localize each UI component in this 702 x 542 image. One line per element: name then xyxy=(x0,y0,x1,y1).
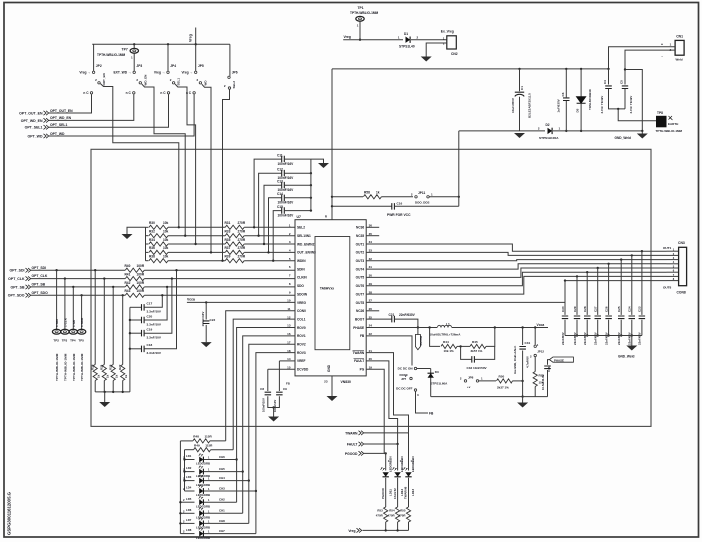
svg-text:C24: C24 xyxy=(628,306,632,312)
wire divider left xyxy=(430,328,440,347)
svg-text:SEL2: SEL2 xyxy=(232,81,236,89)
svg-text:ROV1: ROV1 xyxy=(297,334,306,338)
jumper JP2 pin 2 xyxy=(98,82,100,84)
junction C14 tap xyxy=(267,251,269,253)
svg-text:OPT_WD_EN: OPT_WD_EN xyxy=(21,119,43,123)
svg-text:C14: C14 xyxy=(277,192,283,196)
junction OUT1 cap tap xyxy=(641,250,643,252)
junction C6 gnd xyxy=(565,130,567,132)
wire xyxy=(381,196,413,198)
connector arrow OPT_SDO xyxy=(26,293,31,297)
svg-text:OPT_SEL1: OPT_SEL1 xyxy=(25,126,43,130)
wire LD8 cathode xyxy=(204,533,256,535)
wire C12 left lead xyxy=(259,173,282,236)
wire row middle xyxy=(168,260,225,262)
svg-text:D1: D1 xyxy=(404,32,408,36)
svg-text:CH7: CH7 xyxy=(219,529,225,533)
junction Vreg riser xyxy=(195,43,197,45)
LED LD1 LEDGORB xyxy=(199,457,203,463)
svg-text:JP6: JP6 xyxy=(232,70,238,74)
junction GND_Weld xyxy=(641,130,643,132)
junction OUT2 cap tap xyxy=(631,254,633,256)
svg-text:R50: R50 xyxy=(499,375,505,379)
connector CN1 xyxy=(675,40,684,55)
svg-text:FAULT: FAULT xyxy=(354,359,364,363)
wire R49 out xyxy=(211,449,234,451)
svg-text:C26: C26 xyxy=(604,306,608,312)
svg-text:CH1: CH1 xyxy=(219,509,225,513)
svg-text:4.7nF Y1/4kV: 4.7nF Y1/4kV xyxy=(629,96,633,114)
wire xyxy=(94,381,96,392)
capacitor C21 boot xyxy=(392,316,395,323)
junction C15 gnd rail xyxy=(310,209,312,211)
resistor R38 10k xyxy=(149,259,168,263)
wire JP5 pin1 stub xyxy=(195,44,197,71)
wire R48 out xyxy=(210,440,226,442)
jumper JP11 pin 2 xyxy=(415,196,417,198)
resistor R33 270R xyxy=(225,234,244,238)
svg-text:OPT_CLK: OPT_CLK xyxy=(32,274,48,278)
svg-text:D3: D3 xyxy=(435,370,439,374)
svg-text:SDOIN: SDOIN xyxy=(297,292,308,296)
wire C29 top lead xyxy=(576,276,578,315)
svg-text:CH4: CH4 xyxy=(219,476,225,480)
svg-text:R38: R38 xyxy=(149,255,155,259)
LD7 light arrows xyxy=(199,518,201,520)
capacitor C27 22nF xyxy=(595,316,602,319)
svg-text:PHASE: PHASE xyxy=(353,326,364,330)
svg-text:OPT_OUT_EN: OPT_OUT_EN xyxy=(50,109,73,113)
wire pulldown 3 xyxy=(122,295,124,364)
wire LD5 cathode xyxy=(204,501,237,503)
svg-text:GND_Weld: GND_Weld xyxy=(618,355,634,359)
wire row middle xyxy=(168,251,225,253)
wire TWARN xyxy=(366,353,408,433)
svg-text:R32: R32 xyxy=(149,230,155,234)
svg-text:C22: C22 xyxy=(210,318,216,322)
svg-text:JP4: JP4 xyxy=(170,64,176,68)
svg-text:LEDGORB: LEDGORB xyxy=(196,516,210,520)
svg-text:ROV2: ROV2 xyxy=(297,343,306,347)
resistor R54 470R xyxy=(396,507,400,522)
ground caps xyxy=(318,163,329,168)
svg-text:VREF: VREF xyxy=(297,359,306,363)
svg-text:LEDGORB: LEDGORB xyxy=(196,504,210,508)
wire FB to JP7 xyxy=(366,336,412,366)
wire JP3 signal down xyxy=(142,84,186,236)
svg-text:470R: 470R xyxy=(376,514,384,518)
junction OUT7 cap tap xyxy=(576,275,578,277)
wire Vreg rail xyxy=(92,43,230,45)
resistor R40 100R xyxy=(125,268,144,272)
capacitor C23 22nF xyxy=(639,316,646,319)
wire phase flag stem xyxy=(417,328,419,335)
svg-text:C13: C13 xyxy=(277,179,283,183)
TWARN overline xyxy=(353,349,365,351)
wire gnd stem xyxy=(273,408,275,417)
wire LD11 anode xyxy=(385,453,387,470)
svg-text:22nF/63V: 22nF/63V xyxy=(594,332,598,345)
wire OPT_SB xyxy=(31,286,125,288)
svg-text:R53: R53 xyxy=(377,509,383,513)
wire C23 top lead xyxy=(641,251,643,315)
net flag PHASE right xyxy=(550,357,574,362)
wire JP7 to D3 xyxy=(417,368,431,370)
svg-text:OPT_CLK: OPT_CLK xyxy=(8,277,25,281)
svg-text:10uH/SLTR6L+726mA: 10uH/SLTR6L+726mA xyxy=(430,333,462,337)
wire OUT8 xyxy=(366,281,666,303)
junction C17 row tap xyxy=(161,294,163,296)
junction C12 gnd rail xyxy=(310,172,312,174)
wire xyxy=(146,226,149,228)
wire VS supply to IC xyxy=(331,69,333,220)
resistor R31 270R xyxy=(225,225,244,229)
junction OPT_SB pulldown xyxy=(112,286,114,288)
svg-text:C29: C29 xyxy=(573,306,577,312)
LED LD3 LEDGORB xyxy=(199,478,203,484)
svg-text:OPT_WD_EN: OPT_WD_EN xyxy=(50,116,72,120)
svg-text:LD8: LD8 xyxy=(186,528,192,532)
junction row 4 xyxy=(210,251,212,253)
wire OPT_CLK xyxy=(31,278,125,280)
LED LD7 LEDGORB xyxy=(199,521,203,527)
svg-text:JP3: JP3 xyxy=(136,64,142,68)
wire OPT_CLK to IC xyxy=(144,278,295,280)
wire OUT3 xyxy=(366,260,666,261)
wire xyxy=(457,345,470,347)
jumper JP7 pin 1 xyxy=(414,367,416,369)
svg-text:WDIN: WDIN xyxy=(297,259,306,263)
LED LD6 LEDGORB xyxy=(199,510,203,516)
svg-text:CH5: CH5 xyxy=(219,467,225,471)
LD12 light arrows xyxy=(392,468,394,470)
svg-text:OPT_SDI: OPT_SDI xyxy=(32,266,47,270)
svg-text:EARTH: EARTH xyxy=(668,122,678,126)
wire OUT4 xyxy=(366,264,666,269)
LED LD13 xyxy=(405,472,411,477)
wire OUT5 xyxy=(366,268,666,277)
junction FAULT led xyxy=(396,443,398,445)
junction CN1 plus xyxy=(607,68,609,70)
junction C13 tap xyxy=(263,243,265,245)
svg-text:WD_EN: WD_EN xyxy=(143,75,147,86)
wire xyxy=(332,205,392,207)
svg-text:R44: R44 xyxy=(443,340,449,344)
wire LED rail A xyxy=(179,441,181,534)
wire ROV1 bus xyxy=(243,336,295,513)
wire C32 left xyxy=(461,346,472,359)
svg-text:Vcca: Vcca xyxy=(537,323,545,327)
svg-text:LEDGORB: LEDGORB xyxy=(196,536,210,540)
connector CN3 xyxy=(679,247,687,285)
wire JP6 signal down xyxy=(223,89,230,260)
wire ROV3 bus xyxy=(256,353,295,534)
svg-text:R40: R40 xyxy=(125,264,131,268)
wire C33 bottom lead xyxy=(547,370,549,397)
wire ROV0 bus xyxy=(237,328,295,503)
junction C14 gnd rail xyxy=(310,197,312,199)
connector arrow PGOOD xyxy=(359,451,364,455)
ground C22 xyxy=(201,342,212,347)
svg-text:TPTH-WBLIO-1MM: TPTH-WBLIO-1MM xyxy=(97,53,125,57)
svg-text:TWARN: TWARN xyxy=(353,351,365,355)
wire TP2 stem xyxy=(56,270,58,329)
svg-text:LD5: LD5 xyxy=(186,497,192,501)
junction OUT5 cap tap xyxy=(597,267,599,269)
junction OPT_CLK pulldown xyxy=(103,277,105,279)
svg-text:3.3nF/10V: 3.3nF/10V xyxy=(147,351,162,355)
junction xyxy=(122,391,124,393)
wire xyxy=(641,131,643,134)
capacitor C13 100nF xyxy=(282,182,285,189)
wire FAULT xyxy=(366,361,397,444)
junction LED row4 tap xyxy=(255,490,257,492)
wire LD7 cathode xyxy=(204,522,249,524)
svg-text:4.7nF Y1/4kV: 4.7nF Y1/4kV xyxy=(600,96,604,114)
wire C18 to row xyxy=(144,270,176,349)
svg-text:VREG: VREG xyxy=(297,301,307,305)
wire D2 rail left xyxy=(459,130,545,132)
svg-text:CN3: CN3 xyxy=(678,241,685,245)
svg-text:DOO_DOS: DOO_DOS xyxy=(415,201,430,205)
FAULT overline xyxy=(354,358,365,360)
ground CN2 xyxy=(421,57,432,62)
wire C22 top lead xyxy=(205,302,207,319)
svg-text:OUT5: OUT5 xyxy=(356,276,365,280)
svg-text:100R: 100R xyxy=(137,281,145,285)
svg-text:EXT_WD →: EXT_WD → xyxy=(113,71,131,75)
wire C6 top lead xyxy=(565,69,567,98)
svg-text:R39: R39 xyxy=(225,255,231,259)
junction phase boot xyxy=(417,326,419,328)
wire D5 top lead xyxy=(580,69,582,97)
wire C27 bottom lead xyxy=(597,320,599,336)
svg-text:2k37 1%: 2k37 1% xyxy=(497,386,509,390)
junction LED rail xyxy=(179,501,181,503)
wire C5 top lead xyxy=(624,70,626,85)
wire snubber gnd rail xyxy=(565,335,642,337)
svg-text:CH2: CH2 xyxy=(219,498,225,502)
wire TP3 stem xyxy=(64,279,66,330)
wire Vreg label riser xyxy=(195,28,197,45)
jumper JP4 pin 1 xyxy=(167,71,169,73)
wire C1 bottom lead xyxy=(519,97,521,131)
svg-text:B2LE2ABF2X11.5: B2LE2ABF2X11.5 xyxy=(528,93,532,118)
wire C25 top lead xyxy=(620,260,622,315)
svg-text:100R: 100R xyxy=(137,289,145,293)
svg-text:BOOT: BOOT xyxy=(355,317,364,321)
junction LED rail xyxy=(179,522,181,524)
wire VREG pin xyxy=(187,301,295,303)
junction D5 gnd xyxy=(580,130,582,132)
svg-text:LD13: LD13 xyxy=(411,489,415,496)
jumper JP4 pin 3 xyxy=(167,92,169,94)
junction C15 tap xyxy=(272,260,274,262)
wire CN3 pin 4 stub xyxy=(667,263,679,265)
junction C18 xyxy=(129,348,131,350)
svg-text:TP3: TP3 xyxy=(62,339,68,343)
svg-text:C15: C15 xyxy=(277,205,283,209)
capacitor C17 3.3nF xyxy=(142,304,145,311)
svg-text:470R: 470R xyxy=(399,514,407,518)
svg-text:TPTH-WBLIO-1MM: TPTH-WBLIO-1MM xyxy=(350,11,378,15)
svg-text:270R: 270R xyxy=(238,255,246,259)
resistor R41 100R xyxy=(125,277,144,281)
wire C28 bottom lead xyxy=(586,320,588,336)
resistor R27 pulldown xyxy=(121,365,125,381)
svg-text:OPT_SEL1: OPT_SEL1 xyxy=(50,123,67,127)
wire OPT_WD_EN to jumper xyxy=(49,94,134,120)
wire LD12 cathode xyxy=(397,478,399,507)
svg-text:STPS1L60A: STPS1L60A xyxy=(431,381,449,385)
connector arrow OPT_WD_EN xyxy=(44,118,49,122)
wire CN3 pin 3 stub xyxy=(667,259,679,261)
svg-text:R55: R55 xyxy=(400,509,406,513)
wire JP11 to VS riser xyxy=(430,196,459,198)
svg-text:JP8: JP8 xyxy=(468,375,474,379)
wire OUT1 xyxy=(366,244,666,251)
resistor R45 3k57 xyxy=(470,344,486,348)
svg-text:JP11: JP11 xyxy=(418,191,425,195)
wire C4 bottom bracket xyxy=(609,89,626,109)
wire C9 top lead xyxy=(278,361,280,391)
wire C23 bottom lead xyxy=(641,320,643,336)
svg-text:WD_EN/IN2: WD_EN/IN2 xyxy=(297,242,315,246)
wire VREF xyxy=(279,360,295,362)
svg-text:OPT_SDO: OPT_SDO xyxy=(32,291,49,295)
svg-text:22nF/63V: 22nF/63V xyxy=(583,332,587,345)
wire LD8 anode xyxy=(180,533,194,535)
wire C4 top lead xyxy=(608,69,610,85)
resistor R32 10k xyxy=(149,234,168,238)
wire xyxy=(397,522,399,530)
svg-text:CN1: CN1 xyxy=(676,34,683,38)
LD2 light arrows xyxy=(199,466,201,468)
svg-text:Vreg: Vreg xyxy=(348,529,355,533)
wire C1 top lead xyxy=(519,69,521,91)
wire LD5 anode xyxy=(180,501,194,503)
wire cap rail to ground xyxy=(311,159,324,163)
svg-text:1k: 1k xyxy=(124,374,128,378)
wire LD13 anode xyxy=(408,433,410,471)
svg-text:LEDGORB: LEDGORB xyxy=(196,462,210,466)
svg-text:OUT4: OUT4 xyxy=(356,267,365,271)
wire row to IC xyxy=(244,226,295,228)
svg-text:R31: R31 xyxy=(225,221,231,225)
wire C13 left lead xyxy=(264,185,281,244)
wire TWARN out xyxy=(364,432,409,434)
LD6 light arrows xyxy=(199,508,201,510)
wire CN3 pin 2 stub xyxy=(667,254,679,256)
svg-text:R27: R27 xyxy=(118,364,122,370)
svg-text:10k: 10k xyxy=(163,230,169,234)
wire CN1 minus to gnd xyxy=(625,70,642,131)
svg-text:OPT_SB: OPT_SB xyxy=(32,283,46,287)
capacitor C18 3.3nF xyxy=(142,346,145,353)
capacitor C26 22nF xyxy=(605,316,612,319)
wire row to IC xyxy=(244,243,295,245)
capacitor C11 100nF xyxy=(282,156,285,163)
wire power rail xyxy=(332,68,609,70)
wire TP7 stem upper xyxy=(133,44,135,48)
resistor R36 10k xyxy=(149,250,168,254)
junction dcdc gnd xyxy=(521,395,523,397)
wire FAULT out xyxy=(364,443,398,445)
svg-text:R26: R26 xyxy=(109,364,113,370)
wire cap gnd rail xyxy=(310,159,312,211)
junction TP1 xyxy=(359,39,361,41)
wire OPT_WD to jumper xyxy=(49,94,194,136)
svg-text:OUT1: OUT1 xyxy=(663,246,672,250)
svg-text:4.7uF/6V: 4.7uF/6V xyxy=(526,356,530,368)
resistor R25 pulldown xyxy=(102,365,106,381)
wire C15 right lead xyxy=(285,210,311,212)
svg-text:TRSL600RB4C: TRSL600RB4C xyxy=(588,88,592,110)
wire pulldown 2 xyxy=(112,287,114,365)
wire TP4 stem xyxy=(72,287,74,329)
capacitor C30 22nF xyxy=(562,316,568,319)
jumper JP4 pin 2 xyxy=(172,82,174,84)
svg-text:OUT2: OUT2 xyxy=(356,251,365,255)
wire C11 right lead xyxy=(285,158,311,160)
capacitor C25 22nF xyxy=(618,316,625,319)
wire xyxy=(384,452,386,454)
junction OPT_CLK tp xyxy=(64,277,66,279)
svg-text:ROV0: ROV0 xyxy=(297,326,306,330)
svg-text:1 SB: 1 SB xyxy=(72,319,76,327)
svg-text:R42: R42 xyxy=(125,281,131,285)
svg-text:SEL1: SEL1 xyxy=(177,78,181,86)
svg-text:C11: C11 xyxy=(277,153,283,157)
wire OUT2 xyxy=(366,252,666,255)
wire xyxy=(185,449,194,451)
svg-text:TA6HVxx: TA6HVxx xyxy=(320,287,334,291)
svg-text:PWR FOR VCC: PWR FOR VCC xyxy=(387,213,411,217)
wire C5 bottom lead xyxy=(624,89,626,109)
wire C21 to phase xyxy=(395,319,418,327)
svg-text:CH6: CH6 xyxy=(219,455,225,459)
wire LD2 anode xyxy=(185,471,195,473)
wire OPT_OUT_EN to jumper xyxy=(49,94,92,113)
svg-text:C5: C5 xyxy=(620,80,624,84)
capacitor C12 100nF xyxy=(282,170,285,177)
svg-text:CH8: CH8 xyxy=(219,519,225,523)
wire D1 to CN2 xyxy=(411,39,447,41)
ground pulldowns xyxy=(99,402,110,407)
svg-text:SDO: SDO xyxy=(297,284,304,288)
jumper JP5 pin 3 xyxy=(193,92,195,94)
capacitor C33 xyxy=(544,366,551,369)
test point TP1 xyxy=(356,16,364,21)
svg-text:C16: C16 xyxy=(397,202,403,206)
resistor R39 270R xyxy=(225,259,244,263)
wire R52 bottom xyxy=(534,387,536,397)
svg-text:115R: 115R xyxy=(205,434,213,438)
svg-text:C27: C27 xyxy=(594,306,598,312)
connector arrow OPT_SEL1 xyxy=(44,125,49,129)
jumper JP2 pin 3 xyxy=(90,92,92,94)
svg-text:3.3nF/10V: 3.3nF/10V xyxy=(147,310,162,314)
wire C18 left lead xyxy=(130,348,141,350)
junction xyxy=(385,529,387,531)
svg-text:10.5uF/6.3V: 10.5uF/6.3V xyxy=(541,374,545,390)
connector arrow OPT_OUT_EN xyxy=(44,111,49,115)
svg-text:VN830: VN830 xyxy=(341,380,351,384)
svg-text:LEDGORB: LEDGORB xyxy=(196,526,210,530)
junction C28 gnd xyxy=(586,334,588,336)
wire xyxy=(385,522,387,530)
wire C19 to row xyxy=(144,279,172,334)
